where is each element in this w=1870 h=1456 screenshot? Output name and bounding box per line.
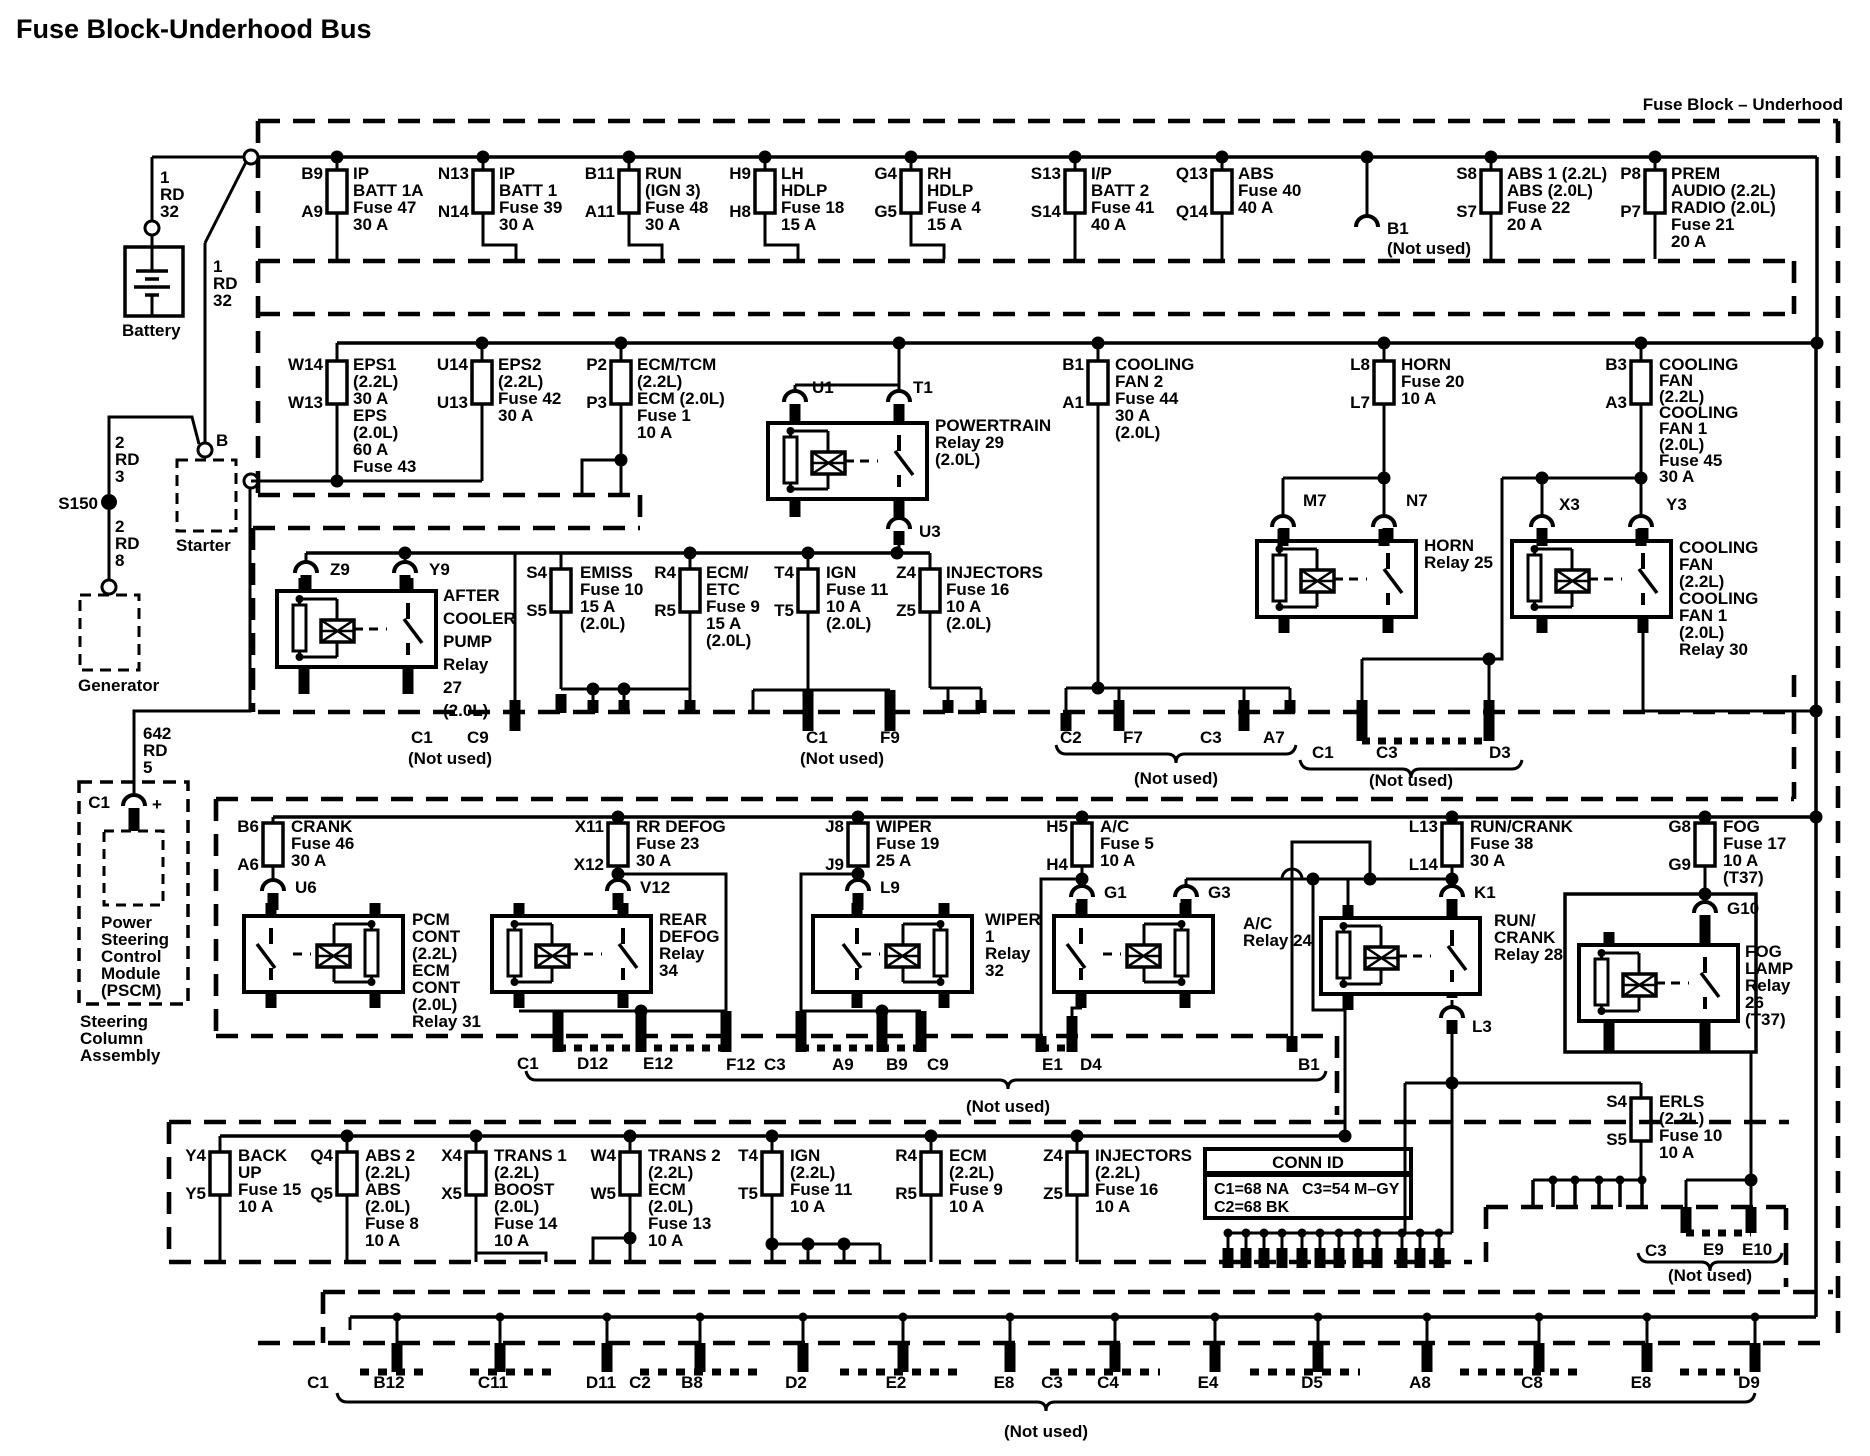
svg-text:30 A: 30 A <box>645 215 680 234</box>
svg-text:N7: N7 <box>1406 491 1428 510</box>
svg-text:(T37): (T37) <box>1723 868 1764 887</box>
connector U6 <box>262 880 284 891</box>
svg-text:N13: N13 <box>438 164 469 183</box>
svg-text:C1: C1 <box>88 793 110 812</box>
wire fog box to E10 <box>1750 1052 1753 1180</box>
brace C3-E10 not used <box>1638 1253 1782 1271</box>
svg-text:P8: P8 <box>1620 164 1641 183</box>
svg-text:U13: U13 <box>437 393 468 412</box>
svg-text:H4: H4 <box>1046 855 1068 874</box>
svg-text:G1: G1 <box>1104 883 1127 902</box>
svg-text:3: 3 <box>115 467 124 486</box>
svg-text:B8: B8 <box>681 1373 703 1392</box>
svg-text:C4: C4 <box>1097 1373 1119 1392</box>
svg-text:B9: B9 <box>886 1055 908 1074</box>
svg-text:Z5: Z5 <box>1043 1184 1063 1203</box>
svg-text:S4: S4 <box>1606 1092 1627 1111</box>
relay K32 WIPER 1 Relay 32 <box>813 916 972 992</box>
elbow under TRANS1 <box>476 1253 546 1262</box>
relay K27 feed arcs <box>305 553 308 562</box>
svg-text:10 A: 10 A <box>1100 851 1135 870</box>
svg-text:R5: R5 <box>895 1184 917 1203</box>
svg-text:H9: H9 <box>729 164 751 183</box>
generator <box>80 595 139 670</box>
svg-text:10 A: 10 A <box>790 1197 825 1216</box>
svg-text:P3: P3 <box>586 393 607 412</box>
svg-text:W5: W5 <box>591 1184 617 1203</box>
CONN ID box <box>1205 1149 1411 1218</box>
svg-text:C3: C3 <box>1041 1373 1063 1392</box>
svg-text:10 A: 10 A <box>494 1231 529 1250</box>
wire battery to bus <box>151 157 154 221</box>
svg-text:10 A: 10 A <box>365 1231 400 1250</box>
svg-text:Fuse Block-Underhood Bus: Fuse Block-Underhood Bus <box>16 14 372 44</box>
row2 dashed bottom left <box>258 493 636 498</box>
svg-text:E8: E8 <box>994 1373 1015 1392</box>
PSCM box <box>104 831 163 905</box>
fuse F1 ECM/TCM <box>615 337 628 350</box>
fuse F14 TRANS1 <box>470 1130 483 1143</box>
svg-text:10 A: 10 A <box>637 423 672 442</box>
svg-text:A1: A1 <box>1062 393 1084 412</box>
svg-text:D11: D11 <box>586 1373 616 1392</box>
row1-row2 bracket <box>1792 261 1797 314</box>
svg-text:30 A: 30 A <box>636 851 671 870</box>
svg-text:Generator: Generator <box>78 676 160 695</box>
svg-text:X5: X5 <box>441 1184 462 1203</box>
connector C1 PSCM <box>123 795 145 806</box>
relay K34 REAR DEFOG Relay 34 <box>492 916 651 992</box>
svg-text:U3: U3 <box>919 522 941 541</box>
svg-text:Battery: Battery <box>122 321 181 340</box>
svg-text:P2: P2 <box>586 355 607 374</box>
svg-text:30 A: 30 A <box>353 215 388 234</box>
svg-text:(Not used): (Not used) <box>800 749 884 768</box>
wire to bus5 right end <box>1307 873 1320 886</box>
svg-text:C1: C1 <box>1312 743 1334 762</box>
comb under IGN C1 F9 <box>753 689 890 692</box>
svg-text:(2.0L): (2.0L) <box>443 701 488 720</box>
brace C1-B1 not used row4 <box>526 1071 1326 1089</box>
row4 dashed box top <box>216 797 1794 802</box>
svg-text:Relay 24: Relay 24 <box>1243 931 1313 950</box>
fuse F9 ECM22 <box>925 1130 938 1143</box>
svg-text:S4: S4 <box>526 563 547 582</box>
svg-text:40 A: 40 A <box>1091 215 1126 234</box>
fuse F38 RUN/CRANK <box>1446 811 1459 824</box>
svg-text:J9: J9 <box>825 855 844 874</box>
svg-text:B1: B1 <box>1387 219 1409 238</box>
row2 dashed box top <box>258 312 1794 317</box>
svg-text:Y4: Y4 <box>185 1146 206 1165</box>
wire S150 to generator <box>108 510 111 580</box>
svg-text:B6: B6 <box>237 817 259 836</box>
svg-text:34: 34 <box>659 961 678 980</box>
wire B1 drop <box>1292 842 1370 1036</box>
fuse F22 <box>1485 151 1498 164</box>
bus4 <box>273 815 1816 819</box>
svg-text:(Not used): (Not used) <box>1134 769 1218 788</box>
svg-text:A9: A9 <box>301 202 323 221</box>
bus3 <box>306 551 930 555</box>
svg-text:27: 27 <box>443 678 462 697</box>
svg-text:C3: C3 <box>1200 728 1222 747</box>
fuse F19 WIPER <box>852 811 865 824</box>
svg-text:E12: E12 <box>643 1054 673 1073</box>
svg-text:30 A: 30 A <box>291 851 326 870</box>
svg-text:10 A: 10 A <box>648 1231 683 1250</box>
svg-text:M7: M7 <box>1303 491 1327 510</box>
svg-text:Q5: Q5 <box>310 1184 333 1203</box>
svg-text:T5: T5 <box>774 601 794 620</box>
svg-text:B1: B1 <box>1062 355 1084 374</box>
brace bottom not used <box>337 1393 1755 1411</box>
fuse F45 COOLING FAN <box>1635 337 1648 350</box>
svg-text:G8: G8 <box>1668 817 1691 836</box>
svg-text:Assembly: Assembly <box>80 1046 161 1065</box>
comb under INJECTORS <box>930 687 981 690</box>
svg-text:C2: C2 <box>629 1373 651 1392</box>
svg-text:E8: E8 <box>1631 1373 1652 1392</box>
lower right dashed box <box>1486 1205 1786 1210</box>
fuse F20 HORN <box>1378 337 1391 350</box>
svg-text:25 A: 25 A <box>876 851 911 870</box>
svg-text:X4: X4 <box>441 1146 462 1165</box>
connector Z9 <box>295 562 317 573</box>
svg-text:10 A: 10 A <box>1659 1143 1694 1162</box>
wire EPS fuse bottoms to circle <box>251 480 482 483</box>
wire 642 RD 5 to PSCM <box>134 488 250 793</box>
fuse F8 ABS2 <box>341 1130 354 1143</box>
fuse F46 CRANK <box>272 817 275 823</box>
svg-text:R4: R4 <box>895 1146 917 1165</box>
svg-text:G10: G10 <box>1727 899 1759 918</box>
svg-text:Relay 30: Relay 30 <box>1679 640 1748 659</box>
wire B3 fuse to X3 Y3 <box>1635 472 1648 485</box>
fuse F4 <box>905 151 918 164</box>
connector G10 <box>1699 888 1712 901</box>
svg-text:(T37): (T37) <box>1745 1010 1786 1029</box>
wire F19 elbow to A9 tooth <box>852 868 865 881</box>
svg-text:Relay 31: Relay 31 <box>412 1012 481 1031</box>
svg-text:10 A: 10 A <box>1095 1197 1130 1216</box>
wire bus3 drop to C9 <box>514 553 517 700</box>
fuse F5 AC <box>1076 811 1089 824</box>
svg-text:A9: A9 <box>832 1055 854 1074</box>
svg-text:32: 32 <box>213 291 232 310</box>
svg-text:Y5: Y5 <box>185 1184 206 1203</box>
svg-text:(Not used): (Not used) <box>1387 239 1471 258</box>
svg-text:Relay: Relay <box>443 655 489 674</box>
svg-text:B1: B1 <box>1298 1055 1320 1074</box>
relay K24 AC Relay 24 <box>1054 916 1213 992</box>
fuse F10 EMISS <box>560 553 563 569</box>
svg-text:20 A: 20 A <box>1671 232 1706 251</box>
svg-text:C3=54 M–GY: C3=54 M–GY <box>1302 1181 1400 1198</box>
svg-text:Relay 25: Relay 25 <box>1424 553 1493 572</box>
svg-text:32: 32 <box>985 961 1004 980</box>
comb under EMISS <box>561 688 690 691</box>
svg-text:U1: U1 <box>812 378 834 397</box>
svg-text:U14: U14 <box>437 355 469 374</box>
relay K30 COOLING FAN Relay 30 <box>1512 541 1671 617</box>
fuse F10 ERLS <box>1640 1083 1643 1098</box>
row5 dashed box <box>169 1120 1789 1125</box>
rows3-4 corridor right bracket <box>1792 712 1797 799</box>
svg-text:E1: E1 <box>1042 1055 1063 1074</box>
row5-bottom dashed mid <box>323 1286 1456 1288</box>
svg-text:Q4: Q4 <box>310 1146 333 1165</box>
connector U3 <box>894 497 905 517</box>
comb under K24 D4 <box>1072 1008 1082 1016</box>
rows2-3 right bracket <box>1792 675 1797 712</box>
svg-text:D12: D12 <box>577 1054 608 1073</box>
relay K25 HORN Relay 25 <box>1257 541 1416 617</box>
starter <box>177 460 236 531</box>
svg-text:L7: L7 <box>1350 393 1370 412</box>
wire circle to starter B diagonal <box>205 162 246 243</box>
relay K26 FOG LAMP Relay 26 <box>1579 945 1738 1021</box>
fuse F40 <box>1216 151 1229 164</box>
svg-text:G4: G4 <box>874 164 897 183</box>
svg-text:C3: C3 <box>764 1055 786 1074</box>
svg-text:Fuse 43: Fuse 43 <box>353 457 416 476</box>
comb C2 F7 C3 A7 <box>1092 682 1105 695</box>
connector N7 <box>1373 516 1395 527</box>
svg-text:G5: G5 <box>874 202 897 221</box>
connector T1 <box>898 385 901 391</box>
wire F1 bottom elbow <box>620 404 623 495</box>
svg-text:B11: B11 <box>585 164 615 183</box>
svg-text:S5: S5 <box>526 601 547 620</box>
fuse F9 ECM/ETC <box>684 547 697 560</box>
wire drop to comb <box>1404 1083 1407 1233</box>
svg-text:E9: E9 <box>1703 1240 1724 1259</box>
row2-row3 bracket <box>638 495 643 528</box>
fuse F13 TRANS2 <box>624 1130 637 1143</box>
svg-text:F12: F12 <box>726 1055 755 1074</box>
fuse F44 COOLING FAN 2 <box>1092 337 1105 350</box>
comb under K34 <box>519 1010 726 1013</box>
svg-text:Z4: Z4 <box>896 563 916 582</box>
row4 dashed left edge <box>214 799 219 1036</box>
comb under CONN ID <box>1228 1232 1452 1235</box>
svg-text:(2.0L): (2.0L) <box>946 614 991 633</box>
svg-text:S5: S5 <box>1606 1130 1627 1149</box>
svg-text:PUMP: PUMP <box>443 632 492 651</box>
svg-text:J8: J8 <box>825 817 844 836</box>
bus2 <box>337 341 1817 345</box>
svg-text:L3: L3 <box>1472 1017 1492 1036</box>
connector V12 <box>617 874 620 880</box>
svg-text:N14: N14 <box>438 202 470 221</box>
battery B+ <box>145 221 159 235</box>
svg-text:W14: W14 <box>288 355 324 374</box>
svg-text:H8: H8 <box>729 202 751 221</box>
svg-text:(PSCM): (PSCM) <box>101 981 161 1000</box>
svg-text:10 A: 10 A <box>949 1197 984 1216</box>
svg-text:T5: T5 <box>738 1184 758 1203</box>
svg-text:R5: R5 <box>654 601 676 620</box>
comb under ERLS <box>1533 1179 1641 1182</box>
wire F38 out <box>1446 873 1459 886</box>
bottom dashed box <box>323 1290 1833 1295</box>
fuse F21 <box>1649 151 1662 164</box>
fuse F11 IGN22 <box>766 1130 779 1143</box>
row4 teeth dashed line <box>216 1034 1332 1039</box>
svg-text:C1: C1 <box>517 1054 539 1073</box>
node junction circle row2 left <box>244 474 258 488</box>
fuse F16 INJ22 <box>1071 1130 1084 1143</box>
fuse F41 <box>1069 151 1082 164</box>
svg-text:C1: C1 <box>806 728 828 747</box>
svg-text:15 A: 15 A <box>781 215 816 234</box>
connector L9 <box>857 874 860 880</box>
brace C2-A7 not used <box>1056 745 1296 763</box>
comb under K32 <box>801 1010 921 1013</box>
svg-text:30 A: 30 A <box>1470 851 1505 870</box>
svg-text:10 A: 10 A <box>1401 389 1436 408</box>
fuse F23 RR DEFOG <box>612 811 625 824</box>
svg-text:T1: T1 <box>913 378 933 397</box>
svg-text:L14: L14 <box>1409 855 1439 874</box>
connector G1 <box>1081 879 1084 886</box>
svg-text:B9: B9 <box>301 164 323 183</box>
svg-text:L9: L9 <box>880 878 900 897</box>
row3 dashed left edge <box>251 528 256 712</box>
relay K29 POWERTRAIN Relay 29 <box>768 423 927 499</box>
node S150 <box>101 494 117 510</box>
svg-text:20 A: 20 A <box>1507 215 1542 234</box>
svg-text:Fuse Block – Underhood: Fuse Block – Underhood <box>1643 95 1843 114</box>
svg-text:E10: E10 <box>1742 1240 1772 1259</box>
svg-text:V12: V12 <box>640 878 670 897</box>
svg-text:(2.0L): (2.0L) <box>1115 423 1160 442</box>
connector M7 <box>1272 516 1294 527</box>
svg-text:(Not used): (Not used) <box>1369 771 1453 790</box>
svg-text:G3: G3 <box>1208 883 1231 902</box>
connector B1 not used <box>1361 151 1374 164</box>
svg-text:(2.0L): (2.0L) <box>706 631 751 650</box>
svg-text:C9: C9 <box>927 1055 949 1074</box>
fuse F16 INJECTORS 20L <box>891 547 904 560</box>
elbow under TRANS2 <box>593 1238 630 1262</box>
svg-text:C3: C3 <box>1376 743 1398 762</box>
svg-text:COOLER: COOLER <box>443 609 516 628</box>
connector Y9 <box>394 562 416 573</box>
svg-text:X11: X11 <box>575 817 604 836</box>
svg-text:C1: C1 <box>307 1373 329 1392</box>
svg-text:C9: C9 <box>467 728 489 747</box>
fuse F18 <box>759 151 772 164</box>
relay K29 powertrain feed <box>893 337 906 350</box>
row1 dashed box bottom <box>258 259 1794 264</box>
svg-text:R4: R4 <box>654 563 676 582</box>
fuse F43 EPS1 <box>336 343 339 361</box>
svg-text:Relay 28: Relay 28 <box>1494 945 1563 964</box>
brace C1-D3 not used <box>1300 760 1522 778</box>
svg-text:D9: D9 <box>1738 1373 1760 1392</box>
svg-text:S7: S7 <box>1456 202 1477 221</box>
svg-text:W13: W13 <box>288 393 323 412</box>
wire G3 feed from run/crank <box>1186 878 1452 881</box>
svg-text:C3: C3 <box>1645 1241 1667 1260</box>
svg-text:32: 32 <box>160 202 179 221</box>
svg-text:(Not used): (Not used) <box>966 1097 1050 1116</box>
svg-text:D3: D3 <box>1489 743 1511 762</box>
svg-text:A7: A7 <box>1263 728 1285 747</box>
fog lamp outer box <box>1565 894 1756 1052</box>
wire S150 branch <box>109 417 199 494</box>
svg-text:C11: C11 <box>478 1373 508 1392</box>
svg-text:15 A: 15 A <box>927 215 962 234</box>
svg-text:K1: K1 <box>1474 883 1496 902</box>
svg-text:Starter: Starter <box>176 536 231 555</box>
svg-text:L13: L13 <box>1409 817 1438 836</box>
svg-text:C1: C1 <box>411 728 433 747</box>
fuse F17 FOG <box>1699 811 1712 824</box>
svg-text:Z9: Z9 <box>330 560 350 579</box>
wire L3 horizontal to ERLS <box>1405 1082 1641 1085</box>
svg-text:A3: A3 <box>1605 393 1627 412</box>
svg-text:B3: B3 <box>1605 355 1627 374</box>
relay K28 RUN/CRANK Relay 28 <box>1321 918 1480 994</box>
svg-text:D2: D2 <box>785 1373 807 1392</box>
svg-text:B12: B12 <box>373 1373 404 1392</box>
svg-text:E2: E2 <box>886 1373 907 1392</box>
steering column assembly box <box>79 782 188 1004</box>
node junction circle bus1 <box>244 150 258 164</box>
wire F23 out elbow to C3 tooth <box>612 868 625 881</box>
svg-text:E4: E4 <box>1198 1373 1219 1392</box>
fuse F11 IGN 20L <box>802 547 815 560</box>
svg-text:S8: S8 <box>1456 164 1477 183</box>
wire HORN fuse to M7 N7 <box>1378 472 1391 485</box>
svg-text:CONN ID: CONN ID <box>1272 1153 1344 1172</box>
svg-text:Q14: Q14 <box>1176 202 1209 221</box>
svg-text:W4: W4 <box>591 1146 617 1165</box>
svg-text:(Not used): (Not used) <box>408 749 492 768</box>
relay K31 PCM CONT Relay 31 <box>244 916 403 992</box>
svg-text:(2.0L): (2.0L) <box>935 450 980 469</box>
svg-text:C2=68 BK: C2=68 BK <box>1214 1199 1290 1216</box>
svg-text:8: 8 <box>115 551 124 570</box>
svg-text:S13: S13 <box>1031 164 1061 183</box>
bus1-bus2 right link <box>1815 157 1819 343</box>
svg-text:A8: A8 <box>1409 1373 1431 1392</box>
svg-text:30 A: 30 A <box>1659 467 1694 486</box>
svg-text:P7: P7 <box>1620 202 1641 221</box>
bottom connector teeth <box>393 1313 402 1322</box>
svg-text:10 A: 10 A <box>238 1197 273 1216</box>
connector G3 <box>1185 879 1188 886</box>
connector teeth E9 E10 <box>1686 1179 1751 1182</box>
svg-text:30 A: 30 A <box>499 215 534 234</box>
fuse F48 <box>623 151 636 164</box>
relay K27 AFTER COOLER PUMP Relay 27 <box>277 591 436 667</box>
rows2-3 dashed bottom <box>258 710 1794 715</box>
svg-text:Y3: Y3 <box>1666 495 1687 514</box>
svg-text:T4: T4 <box>738 1146 758 1165</box>
wire F5 out to E1 tooth <box>1076 873 1089 886</box>
svg-text:C2: C2 <box>1060 728 1082 747</box>
svg-text:B: B <box>216 431 228 450</box>
fuse F47 <box>331 151 344 164</box>
wire X3 branch down to C3 D3 <box>1362 478 1502 659</box>
svg-text:L8: L8 <box>1350 355 1370 374</box>
svg-text:D4: D4 <box>1080 1055 1102 1074</box>
bus5 <box>220 1134 1345 1138</box>
